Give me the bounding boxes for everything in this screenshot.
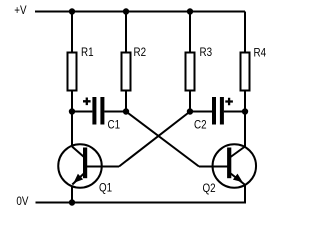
junction node D: Q2 collector / C2 — [242, 108, 248, 114]
capacitor C2 left plate — [212, 97, 216, 125]
junction: Q1 emitter at 0V — [69, 199, 75, 205]
svg-text:C2: C2 — [194, 119, 207, 132]
wire: node A to C1 left plate — [72, 111, 92, 113]
transistor Q1 emitter arrow — [74, 174, 84, 183]
wire: C1 right plate to node B — [104, 111, 126, 113]
wire: Q2 emitter to 0V — [244, 183, 246, 204]
transistor Q2 body circle — [213, 144, 256, 188]
resistor R1 — [68, 53, 77, 91]
transistor Q2 base lead — [199, 166, 230, 168]
capacitor C1 left plate — [92, 97, 96, 125]
transistor Q1 base bar — [83, 148, 87, 179]
0V ground rail wire — [36, 202, 247, 204]
transistor Q1 emitter lead — [72, 172, 85, 185]
transistor Q1 body circle — [58, 144, 102, 188]
capacitor C2 right plate — [220, 97, 224, 125]
resistor R3 — [186, 53, 195, 91]
+V supply rail wire — [35, 11, 245, 13]
wire: Q1 emitter to 0V — [71, 183, 73, 203]
resistor R2 — [122, 53, 131, 91]
svg-text:R2: R2 — [134, 46, 147, 59]
junction node C: R3 / C2 / Q1 base — [187, 108, 193, 114]
svg-text:C1: C1 — [108, 119, 121, 132]
transistor Q2 base bar — [227, 148, 231, 179]
wire: R4/Q2 collector column — [244, 12, 246, 151]
wire: cross-coupling node C to Q1 base — [119, 112, 190, 167]
junction node B: R2 / C1 / Q2 base — [123, 108, 129, 114]
capacitor C1 right plate — [100, 97, 104, 125]
capacitor C1 polarity plus — [83, 98, 91, 106]
transistor Q1 base lead — [85, 166, 119, 168]
svg-text:R3: R3 — [200, 46, 213, 59]
wire: R2 column — [125, 12, 127, 112]
wire: cross-coupling node B to Q2 base — [126, 112, 199, 167]
svg-text:0V: 0V — [16, 195, 29, 208]
wire: C2 right plate to node D — [224, 111, 245, 113]
junction: +V at R3 — [187, 8, 193, 14]
junction: +V at R2 — [123, 8, 129, 14]
transistor Q2 emitter arrow — [233, 174, 243, 183]
wire: R1/Q1 collector column — [71, 12, 73, 151]
transistor Q2 emitter lead — [229, 172, 245, 185]
svg-text:R4: R4 — [254, 47, 267, 60]
svg-text:+V: +V — [14, 4, 27, 17]
svg-text:Q1: Q1 — [99, 182, 112, 195]
resistor R4 — [241, 53, 250, 91]
capacitor C2 polarity plus — [225, 98, 233, 106]
svg-text:R1: R1 — [81, 46, 94, 59]
wire: R3 column — [189, 12, 191, 112]
svg-text:Q2: Q2 — [203, 182, 216, 195]
transistor Q1 collector lead — [72, 147, 84, 158]
wire: node C to C2 left plate — [190, 111, 212, 113]
transistor Q2 collector lead — [231, 147, 246, 158]
junction: +V at R1 — [69, 8, 75, 14]
junction node A: Q1 collector / C1 — [69, 108, 75, 114]
